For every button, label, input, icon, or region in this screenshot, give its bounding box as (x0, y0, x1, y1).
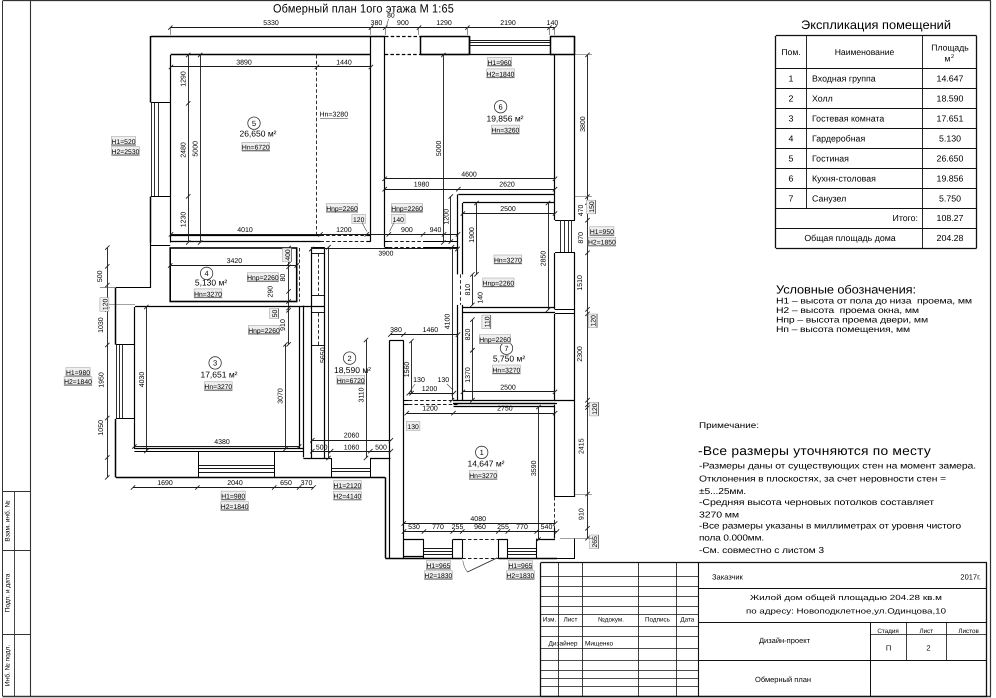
svg-text:1060: 1060 (344, 444, 360, 451)
svg-text:108.27: 108.27 (937, 213, 964, 223)
svg-text:540: 540 (541, 524, 553, 531)
svg-text:Обмерный план: Обмерный план (755, 675, 811, 684)
svg-text:2415: 2415 (579, 438, 586, 454)
svg-text:Подпись: Подпись (645, 617, 671, 624)
svg-text:5650: 5650 (320, 347, 327, 363)
svg-text:1290: 1290 (181, 71, 188, 87)
svg-text:3270 мм: 3270 мм (699, 510, 739, 520)
svg-text:H1=980: H1=980 (221, 494, 245, 501)
svg-text:Hnp=2260: Hnp=2260 (391, 206, 423, 213)
svg-text:H1=965: H1=965 (508, 563, 532, 570)
svg-text:370: 370 (301, 480, 313, 487)
svg-text:7: 7 (789, 193, 794, 203)
svg-text:П: П (886, 644, 891, 653)
svg-text:Листов: Листов (958, 628, 979, 635)
svg-text:4: 4 (789, 133, 794, 143)
svg-text:H1=2120: H1=2120 (334, 483, 362, 490)
svg-text:Hnp=2260: Hnp=2260 (248, 328, 280, 335)
svg-text:2: 2 (926, 644, 930, 653)
svg-text:Лист: Лист (919, 628, 933, 635)
svg-text:1460: 1460 (423, 327, 439, 334)
svg-text:Холл: Холл (812, 94, 833, 104)
svg-text:4030: 4030 (139, 372, 146, 388)
svg-text:Гостевая комната: Гостевая комната (812, 114, 884, 124)
svg-text:5,130 м²: 5,130 м² (195, 278, 227, 288)
svg-text:150: 150 (589, 201, 596, 213)
svg-text:2500: 2500 (500, 206, 516, 213)
svg-text:H1=965: H1=965 (426, 563, 450, 570)
svg-text:500: 500 (97, 270, 104, 282)
svg-text:3110: 3110 (359, 387, 366, 402)
svg-text:Мищенко: Мищенко (585, 640, 613, 647)
svg-text:Hп – высота помещения, мм: Hп – высота помещения, мм (776, 324, 910, 334)
svg-text:820: 820 (465, 329, 472, 341)
svg-text:6: 6 (499, 102, 503, 111)
svg-text:120: 120 (592, 403, 599, 415)
svg-text:Hn=3270: Hn=3270 (493, 367, 521, 374)
svg-text:19,856 м²: 19,856 м² (486, 114, 523, 124)
svg-text:Гардеробная: Гардеробная (812, 133, 865, 143)
svg-text:Наименование: Наименование (835, 47, 895, 57)
svg-text:900: 900 (397, 20, 409, 27)
svg-text:H2 – высота проема окна, мм: H2 – высота проема окна, мм (776, 305, 919, 315)
svg-text:-Все размеры указаны в миллиме: -Все размеры указаны в миллиметрах от ур… (699, 521, 961, 531)
svg-text:H2=2530: H2=2530 (112, 149, 140, 156)
svg-text:17,651 м²: 17,651 м² (200, 369, 237, 379)
svg-text:810: 810 (465, 284, 472, 296)
svg-text:14,647 м²: 14,647 м² (467, 459, 504, 469)
svg-text:900: 900 (401, 227, 413, 234)
svg-text:Hnp=2260: Hnp=2260 (247, 275, 279, 282)
svg-text:№докум.: №докум. (598, 617, 624, 624)
svg-text:140: 140 (393, 217, 405, 224)
svg-text:3420: 3420 (227, 258, 243, 265)
svg-text:2017г.: 2017г. (960, 573, 981, 582)
svg-text:Площадь: Площадь (931, 43, 969, 53)
svg-text:4080: 4080 (470, 516, 486, 523)
svg-text:910: 910 (280, 319, 287, 331)
svg-text:4100: 4100 (445, 314, 452, 330)
svg-text:530: 530 (408, 524, 420, 531)
svg-text:50: 50 (272, 310, 279, 318)
svg-text:5: 5 (789, 153, 794, 163)
svg-text:255: 255 (452, 524, 464, 531)
svg-text:-Размеры даны от существующих: -Размеры даны от существующих стен на мо… (699, 461, 976, 471)
svg-text:2: 2 (951, 54, 954, 60)
svg-text:4600: 4600 (461, 171, 477, 178)
svg-text:770: 770 (516, 524, 528, 531)
svg-text:Hn=3270: Hn=3270 (194, 291, 222, 298)
svg-text:3800: 3800 (580, 116, 587, 132)
svg-text:-Все размеры уточняются по мес: -Все размеры уточняются по месту (698, 444, 932, 458)
svg-text:по адресу: Новоподклетное,ул.О: по адресу: Новоподклетное,ул.Одинцова,10 (746, 607, 946, 616)
svg-text:2: 2 (348, 354, 352, 363)
svg-text:130: 130 (407, 424, 419, 431)
svg-text:Заказчик: Заказчик (712, 573, 744, 582)
svg-text:770: 770 (432, 524, 444, 531)
svg-text:3: 3 (213, 359, 217, 368)
svg-text:80: 80 (280, 274, 287, 282)
svg-text:130: 130 (413, 377, 425, 384)
svg-text:Входная группа: Входная группа (812, 74, 876, 84)
svg-text:960: 960 (474, 524, 486, 531)
svg-text:Дизайнер: Дизайнер (548, 640, 577, 647)
svg-text:H2=1840: H2=1840 (487, 71, 515, 78)
svg-text:18.590: 18.590 (937, 94, 964, 104)
svg-text:4380: 4380 (214, 439, 230, 446)
svg-text:Отклонения в плоскостях, за сч: Отклонения в плоскостях, за счет неровно… (699, 474, 946, 484)
svg-text:1950: 1950 (99, 372, 106, 388)
svg-text:Hn=3270: Hn=3270 (204, 384, 232, 391)
svg-text:H2=1840: H2=1840 (221, 504, 249, 511)
svg-text:2: 2 (789, 94, 794, 104)
svg-text:Hnp=2260: Hnp=2260 (483, 280, 515, 287)
svg-text:Hn=6720: Hn=6720 (337, 378, 365, 385)
svg-text:Взам. инб. №: Взам. инб. № (5, 500, 12, 541)
svg-text:1200: 1200 (422, 406, 438, 413)
svg-text:1290: 1290 (436, 20, 452, 27)
svg-text:130: 130 (437, 377, 449, 384)
svg-text:H1=950: H1=950 (590, 229, 614, 236)
svg-text:120: 120 (353, 217, 365, 224)
svg-text:3070: 3070 (277, 388, 284, 404)
svg-text:H2=4140: H2=4140 (334, 494, 362, 501)
svg-text:2500: 2500 (500, 384, 516, 391)
svg-text:1900: 1900 (469, 227, 476, 243)
svg-text:26.650: 26.650 (937, 153, 964, 163)
svg-text:940: 940 (430, 227, 442, 234)
svg-text:Hnp=2260: Hnp=2260 (326, 206, 358, 213)
svg-text:1510: 1510 (577, 275, 584, 291)
svg-text:Условные обозначения:: Условные обозначения: (776, 283, 916, 297)
svg-text:204.28: 204.28 (937, 233, 964, 243)
svg-text:14.647: 14.647 (937, 74, 964, 84)
svg-text:500: 500 (316, 444, 328, 451)
svg-text:м: м (945, 54, 951, 64)
svg-text:1030: 1030 (98, 317, 105, 333)
svg-text:470: 470 (578, 204, 585, 216)
svg-text:290: 290 (268, 286, 275, 298)
svg-text:2480: 2480 (181, 142, 188, 158)
svg-text:Дизайн-проект: Дизайн-проект (759, 636, 811, 645)
svg-text:1200: 1200 (443, 209, 450, 225)
svg-text:5000: 5000 (436, 141, 443, 157)
svg-text:17.651: 17.651 (937, 114, 964, 124)
svg-text:120: 120 (102, 299, 109, 311)
svg-text:Hn=3270: Hn=3270 (494, 257, 522, 264)
svg-text:255: 255 (497, 524, 509, 531)
svg-text:1200: 1200 (336, 227, 352, 234)
svg-text:H2=1830: H2=1830 (425, 573, 453, 580)
svg-text:Обмерный план 1ого этажа М 1:6: Обмерный план 1ого этажа М 1:65 (273, 2, 454, 16)
svg-text:3: 3 (789, 114, 794, 124)
svg-text:Экспликация помещений: Экспликация помещений (801, 18, 951, 32)
svg-text:Подп. и дата: Подп. и дата (5, 573, 12, 612)
svg-text:1: 1 (789, 74, 794, 84)
svg-text:3590: 3590 (531, 460, 538, 476)
svg-text:2060: 2060 (344, 432, 360, 439)
svg-text:3890: 3890 (236, 60, 252, 67)
svg-text:Итого:: Итого: (893, 213, 919, 223)
svg-text:400: 400 (285, 249, 292, 261)
svg-text:H2=1830: H2=1830 (507, 573, 535, 580)
svg-text:110: 110 (484, 316, 491, 327)
svg-text:870: 870 (578, 232, 585, 244)
svg-text:4010: 4010 (237, 227, 253, 234)
svg-text:120: 120 (591, 315, 598, 327)
svg-text:650: 650 (280, 480, 292, 487)
svg-text:6: 6 (789, 173, 794, 183)
svg-text:H2=1840: H2=1840 (64, 379, 92, 386)
svg-text:1560: 1560 (404, 362, 411, 378)
svg-text:H2=1850: H2=1850 (588, 240, 616, 247)
svg-text:140: 140 (477, 292, 484, 304)
svg-text:5.130: 5.130 (939, 133, 961, 143)
svg-text:Санузел: Санузел (812, 193, 846, 203)
svg-text:Кухня-столовая: Кухня-столовая (812, 173, 876, 183)
svg-text:H1=520: H1=520 (112, 139, 136, 146)
svg-text:5.750: 5.750 (939, 193, 961, 203)
svg-text:Общая площадь дома: Общая площадь дома (804, 233, 895, 243)
svg-text:Инб. № подл.: Инб. № подл. (5, 645, 12, 687)
svg-text:1: 1 (480, 448, 484, 457)
svg-text:Стадия: Стадия (877, 628, 898, 635)
svg-text:Hn=6720: Hn=6720 (242, 145, 270, 152)
svg-text:18,590 м²: 18,590 м² (334, 365, 371, 375)
svg-text:1440: 1440 (336, 60, 352, 67)
svg-text:5000: 5000 (193, 141, 200, 157)
svg-text:140: 140 (547, 20, 559, 27)
svg-text:7: 7 (504, 344, 508, 353)
svg-text:380: 380 (371, 20, 383, 27)
svg-text:Изм.: Изм. (543, 617, 557, 624)
svg-text:5,750 м²: 5,750 м² (493, 354, 525, 364)
svg-text:Hn=3270: Hn=3270 (469, 473, 497, 480)
svg-text:19.856: 19.856 (937, 173, 964, 183)
svg-text:Hn=3260: Hn=3260 (492, 128, 520, 135)
svg-text:-См. совместно с листом 3: -См. совместно с листом 3 (699, 545, 824, 555)
svg-text:2850: 2850 (541, 251, 548, 267)
svg-text:5330: 5330 (263, 20, 279, 27)
svg-text:2750: 2750 (497, 406, 513, 413)
svg-text:2300: 2300 (577, 346, 584, 362)
svg-text:80: 80 (387, 13, 395, 20)
svg-text:1050: 1050 (98, 420, 105, 436)
svg-text:500: 500 (375, 444, 387, 451)
svg-text:Hnp=2260: Hnp=2260 (479, 337, 511, 344)
svg-text:Жилой дом общей площадью 204.2: Жилой дом общей площадью 204.28 кв.м (750, 593, 942, 602)
svg-text:1200: 1200 (422, 386, 438, 393)
svg-text:Примечание:: Примечание: (699, 420, 759, 430)
svg-text:-Средняя высота черновых потол: -Средняя высота черновых потолков состав… (699, 497, 934, 507)
svg-text:5: 5 (252, 119, 256, 128)
svg-text:1980: 1980 (414, 182, 430, 189)
svg-text:910: 910 (579, 508, 586, 520)
svg-text:H1=980: H1=980 (66, 370, 90, 377)
svg-text:±5...25мм.: ±5...25мм. (699, 486, 746, 496)
svg-text:H1 – высота от пола до низа п: H1 – высота от пола до низа проема, мм (776, 296, 972, 306)
svg-text:Пом.: Пом. (781, 47, 800, 57)
svg-text:1370: 1370 (465, 367, 472, 383)
svg-text:1230: 1230 (181, 212, 188, 228)
svg-text:265: 265 (592, 536, 599, 548)
svg-text:Лист: Лист (564, 617, 578, 624)
svg-text:3900: 3900 (378, 251, 393, 258)
svg-text:H1=960: H1=960 (488, 60, 512, 67)
svg-text:2040: 2040 (227, 480, 243, 487)
svg-text:2190: 2190 (500, 20, 516, 27)
svg-text:пола 0.000мм.: пола 0.000мм. (699, 533, 764, 543)
svg-text:Дата: Дата (680, 617, 694, 624)
svg-text:26,650 м²: 26,650 м² (239, 129, 276, 139)
svg-text:1690: 1690 (157, 480, 173, 487)
svg-text:Hпр – высота проема двери, мм: Hпр – высота проема двери, мм (776, 315, 928, 325)
svg-text:380: 380 (390, 327, 402, 334)
svg-text:2620: 2620 (499, 182, 515, 189)
svg-text:Гостиная: Гостиная (812, 153, 849, 163)
svg-text:Hn=3280: Hn=3280 (319, 112, 348, 119)
